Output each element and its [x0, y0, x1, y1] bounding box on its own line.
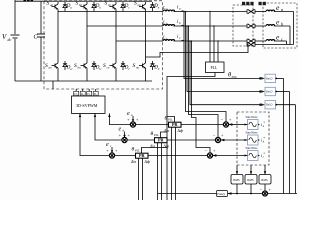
- relay contact neutral: [247, 42, 255, 46]
- label node m (cropped): [24, 0, 34, 2]
- wire current sense c: [189, 40, 191, 42]
- wire current sense a: [183, 11, 185, 13]
- svg-text:RMS: RMS: [233, 178, 240, 182]
- wire row b: [127, 139, 155, 141]
- block gate driver da: [74, 91, 79, 95]
- wire row a: [135, 124, 168, 126]
- wire theta into PR b: [161, 132, 168, 138]
- wire b to relay: [174, 25, 247, 27]
- block 3D-SVPWM: [72, 96, 106, 113]
- wire c to relay: [174, 40, 247, 42]
- wire phase c: [116, 40, 163, 42]
- wire phase a: [58, 11, 163, 13]
- diode Dn': [150, 61, 154, 70]
- svg-text:b: b: [83, 95, 84, 97]
- wire duty a: [109, 113, 130, 124]
- svg-text:PLL: PLL: [211, 66, 218, 70]
- capacitor C: [37, 1, 45, 81]
- transistor Sbn: [81, 61, 88, 70]
- grid source ec: [266, 40, 275, 41]
- wire PR b stubs: [157, 143, 159, 200]
- diode Db': [92, 61, 96, 70]
- junction error: [207, 153, 212, 158]
- block gate driver dn: [93, 91, 98, 95]
- block gate driver dc: [87, 91, 92, 95]
- svg-text:*: *: [263, 136, 265, 140]
- wire i feedback b: [188, 25, 190, 27]
- svg-text:Sine Wave: Sine Wave: [246, 147, 259, 150]
- svg-text:Sine Wave: Sine Wave: [246, 132, 259, 135]
- wire top DC bus: [15, 0, 152, 2]
- label theta_PLL: [228, 72, 237, 80]
- relay contact: [247, 24, 255, 28]
- svg-text:PLL: PLL: [134, 150, 140, 153]
- block gate driver db: [80, 91, 85, 95]
- svg-text:Rel.O: Rel.O: [266, 104, 272, 107]
- junction error: [215, 137, 220, 142]
- junction feedforward b: [122, 137, 127, 142]
- svg-text:Rel.O: Rel.O: [266, 77, 272, 80]
- label ia current: [177, 6, 181, 11]
- wire theta into PR a: [167, 117, 175, 123]
- wire relay-grid c: [255, 40, 266, 42]
- svg-text:*: *: [263, 121, 265, 125]
- svg-text:Sine Wave: Sine Wave: [246, 116, 259, 119]
- svg-text:PR: PR: [172, 122, 179, 127]
- label Vdc: [2, 33, 12, 42]
- svg-text:nn: nn: [136, 66, 140, 70]
- wire bottom bus: [228, 193, 263, 195]
- diode Dn: [150, 2, 154, 11]
- wire leg n: [145, 11, 147, 61]
- wire relay-grid b: [255, 25, 266, 27]
- transistor Sbp: [81, 2, 88, 11]
- wire leg a: [57, 11, 59, 61]
- block measurement 3: [265, 101, 276, 109]
- controller PR a: [169, 122, 182, 127]
- inverter dashed box: [44, 1, 163, 89]
- svg-text:Δdp: Δdp: [144, 160, 151, 164]
- block Fuzzy: [217, 191, 228, 197]
- transistor Snp: [139, 2, 146, 11]
- wire PR c stubs: [138, 158, 140, 200]
- relay contact: [247, 39, 255, 43]
- diode Dc: [121, 2, 125, 11]
- inductor Lc: [163, 40, 175, 41]
- label grid (CJK): [259, 2, 266, 5]
- svg-text:c: c: [90, 95, 91, 97]
- inductor Lb: [163, 25, 175, 26]
- label relay (CJK): [242, 2, 254, 5]
- transistor Scp: [110, 2, 117, 11]
- svg-text:RMS: RMS: [261, 178, 268, 182]
- relay box (dashed): [233, 5, 253, 46]
- svg-text:b': b': [99, 67, 102, 71]
- wire relay-grid a: [255, 11, 266, 13]
- relay contact: [247, 9, 255, 13]
- block RMS2: [245, 175, 257, 185]
- svg-text:3D-SVPWM: 3D-SVPWM: [76, 103, 98, 108]
- junction feedforward a: [130, 122, 135, 127]
- wire PR a stubs: [171, 127, 173, 200]
- wire neutral: [146, 45, 249, 58]
- wire grid neutral: [255, 44, 294, 46]
- wire theta routing: [167, 73, 215, 201]
- svg-text:np: np: [138, 3, 142, 7]
- svg-text:c': c': [128, 67, 130, 71]
- junction error: [223, 122, 228, 127]
- block RMS3: [259, 175, 271, 185]
- transistor Scn: [110, 61, 117, 70]
- svg-text:*: *: [263, 152, 265, 156]
- label ic current: [177, 35, 181, 40]
- svg-text:n': n': [158, 67, 161, 71]
- junction bottom sum: [263, 191, 268, 196]
- block measurement 1: [265, 74, 276, 82]
- svg-text:PLL: PLL: [153, 134, 159, 137]
- dc source Vdc: [11, 0, 20, 81]
- label ib current: [177, 20, 181, 25]
- transistor Snn: [139, 61, 146, 70]
- svg-text:PLL: PLL: [167, 119, 173, 122]
- svg-text:Fuzzy: Fuzzy: [217, 192, 225, 196]
- wire PLL taps: [209, 12, 211, 63]
- wire phase b: [87, 25, 163, 27]
- diode Db: [92, 2, 96, 11]
- block RMS1: [231, 175, 243, 185]
- diode Da': [63, 61, 67, 70]
- svg-text:Δiα: Δiα: [130, 160, 136, 164]
- source sine wave b: [246, 132, 259, 135]
- controller PR b: [155, 138, 168, 143]
- diode Da: [63, 2, 67, 11]
- wire bus-to-box tick: [52, 81, 54, 89]
- grid box (dashed): [263, 3, 297, 48]
- svg-text:n: n: [96, 95, 97, 97]
- wire a to relay: [174, 11, 247, 13]
- label C: [34, 35, 39, 41]
- block measurement 2: [265, 87, 276, 95]
- grid source eb: [266, 25, 275, 26]
- wire duty c: [80, 113, 110, 155]
- grid source ea: [266, 10, 275, 11]
- wire refs to RMS: [236, 165, 238, 175]
- svg-text:cp: cp: [108, 3, 111, 7]
- svg-text:V: V: [2, 33, 7, 41]
- source sine wave a: [246, 116, 259, 119]
- svg-text:cn: cn: [107, 66, 110, 70]
- wire bottom DC bus: [15, 80, 152, 82]
- sine wave group box (dashed): [237, 112, 269, 165]
- controller PR c: [136, 153, 149, 158]
- svg-text:Rel.O: Rel.O: [266, 91, 272, 94]
- svg-text:a: a: [77, 95, 78, 97]
- junction feedforward c: [109, 153, 114, 158]
- svg-text:dc: dc: [8, 37, 12, 42]
- svg-text:an: an: [49, 66, 53, 70]
- svg-text:bp: bp: [79, 3, 83, 7]
- transistor Sap: [52, 2, 59, 11]
- wire i feedback c: [191, 40, 193, 42]
- wire current sense b: [186, 25, 188, 27]
- PLL block: [206, 62, 225, 73]
- svg-text:ap: ap: [50, 3, 54, 7]
- svg-text:PR: PR: [158, 138, 165, 143]
- svg-text:PR: PR: [139, 153, 146, 158]
- transistor San: [52, 61, 59, 70]
- svg-text:RMS: RMS: [247, 178, 254, 182]
- wire duty b: [95, 113, 122, 140]
- svg-text:Δdp: Δdp: [177, 129, 184, 133]
- wire leg c: [115, 11, 117, 61]
- wire theta into PR c: [142, 148, 168, 154]
- wire leg b: [86, 11, 88, 61]
- diode Dc': [121, 61, 125, 70]
- inductor La: [163, 10, 175, 11]
- wire i feedback a: [185, 11, 187, 13]
- wire row c: [114, 155, 135, 157]
- svg-text:a': a': [70, 67, 73, 71]
- source sine wave c: [246, 147, 259, 150]
- svg-text:bn: bn: [78, 66, 82, 70]
